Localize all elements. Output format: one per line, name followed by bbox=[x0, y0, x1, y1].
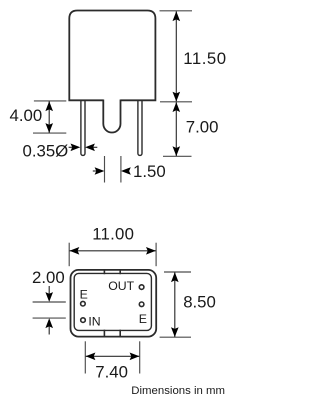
svg-text:7.00: 7.00 bbox=[186, 117, 219, 136]
extension line bottom right (7.00 bottom) bbox=[163, 155, 192, 157]
leader line up for 2.00 bbox=[48, 326, 50, 335]
svg-text:Dimensions in mm: Dimensions in mm bbox=[131, 385, 225, 397]
dimension line 11.50 bbox=[175, 11, 177, 101]
package outline inner (top view) bbox=[74, 273, 151, 330]
svg-text:7.40: 7.40 bbox=[95, 363, 128, 382]
dimension line 7.40 bbox=[86, 355, 140, 357]
dimension line 7.00 bbox=[175, 102, 177, 156]
seam tick bottom left bbox=[103, 330, 105, 338]
seam tick top left bbox=[103, 269, 105, 274]
extension line left lower (4.00 bottom) bbox=[33, 132, 66, 134]
extension line 2.00 lower bbox=[33, 317, 66, 319]
leader line down for 2.00 bbox=[48, 286, 50, 295]
dimension 1.50 left arrow bbox=[93, 170, 97, 172]
extension line 7.40 left bbox=[84, 341, 86, 373]
svg-text:11.50: 11.50 bbox=[183, 49, 227, 68]
dimension line 11.00 bbox=[70, 250, 156, 252]
leader arrow right toward pin bbox=[69, 146, 73, 148]
extension line 2.00 upper bbox=[33, 301, 66, 303]
dimension 1.50 right arrow bbox=[121, 167, 131, 175]
package outline outer (top view) bbox=[71, 270, 157, 337]
svg-text:IN: IN bbox=[88, 314, 100, 328]
svg-text:4.00: 4.00 bbox=[10, 106, 43, 125]
extension line mid right (11.50 / 7.00 junction) bbox=[160, 101, 192, 103]
svg-text:0.35Ø: 0.35Ø bbox=[23, 142, 69, 161]
svg-text:11.00: 11.00 bbox=[92, 225, 134, 244]
pad circle below E top-left bbox=[81, 301, 86, 306]
svg-text:1.50: 1.50 bbox=[133, 162, 166, 181]
svg-text:2.00: 2.00 bbox=[32, 268, 65, 287]
leader arrow left toward pin bbox=[93, 146, 98, 148]
svg-text:E: E bbox=[80, 288, 88, 302]
extension line left upper (4.00 top) bbox=[34, 100, 66, 102]
pad circle right of OUT bbox=[139, 285, 144, 290]
component body (side view) bbox=[69, 11, 155, 101]
svg-text:8.50: 8.50 bbox=[183, 293, 216, 312]
extension line 8.50 top bbox=[164, 271, 191, 273]
pad circle right column lower bbox=[139, 302, 144, 307]
pad circle bottom-left bbox=[81, 318, 86, 323]
extension line 1.50 right bbox=[120, 156, 122, 183]
extension line 7.40 right bbox=[139, 341, 141, 373]
svg-text:OUT: OUT bbox=[108, 279, 134, 293]
right pin bbox=[138, 100, 142, 155]
dimension line 8.50 bbox=[174, 272, 176, 337]
extension line top right (11.50 top) bbox=[160, 10, 193, 12]
extension line 11.00 right bbox=[155, 243, 157, 267]
svg-text:E: E bbox=[139, 312, 147, 326]
left pin bbox=[81, 100, 85, 155]
dimension line 4.00 bbox=[48, 101, 50, 133]
extension line 11.00 left bbox=[68, 243, 70, 267]
extension line 1.50 left bbox=[104, 156, 106, 183]
extension line 8.50 bottom bbox=[160, 336, 191, 338]
seam tick top right bbox=[119, 269, 121, 274]
seam tick bottom right bbox=[119, 330, 121, 338]
center spigot (side view) bbox=[103, 100, 120, 133]
